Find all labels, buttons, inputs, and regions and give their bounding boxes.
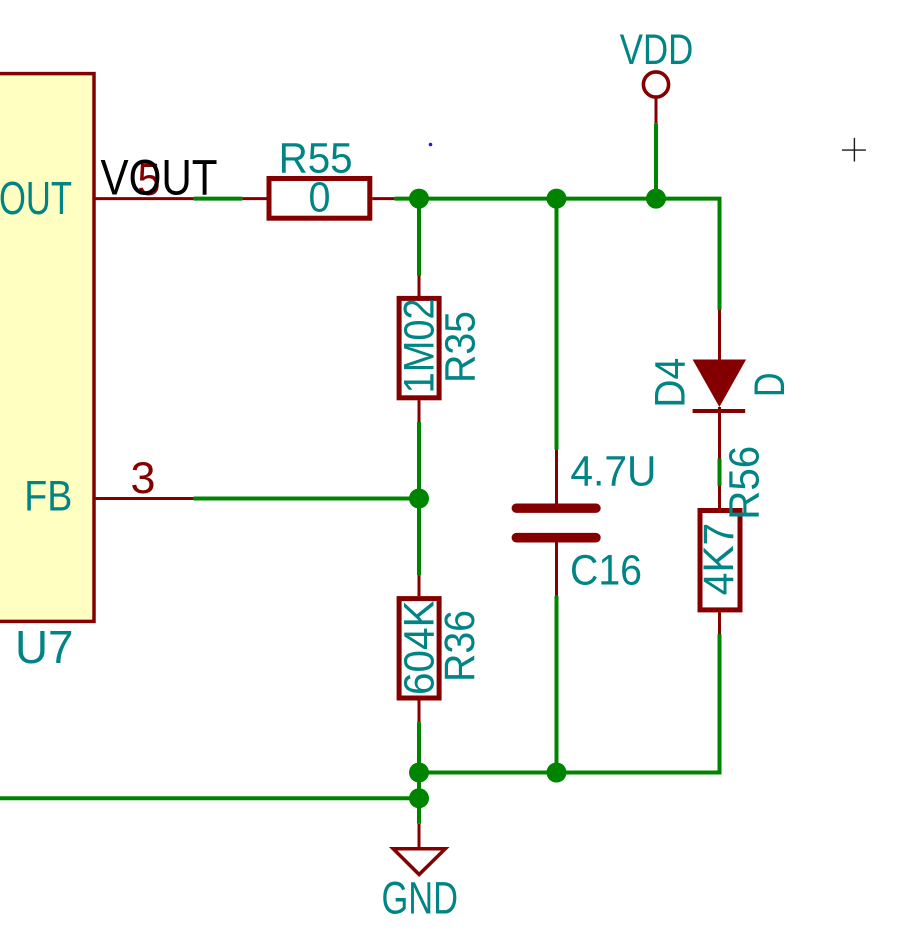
node junction J3 [646, 189, 666, 209]
diode D4 through line [718, 407, 721, 459]
resistor R56 bottom pin [718, 612, 721, 634]
svg-text:R35: R35 [436, 311, 484, 383]
svg-text:3: 3 [131, 454, 156, 503]
svg-text:4K7: 4K7 [695, 523, 743, 596]
svg-text:D: D [746, 373, 794, 398]
diode D4 cathode bar [693, 409, 746, 413]
svg-text:0: 0 [309, 174, 331, 222]
svg-text:4.7U: 4.7U [570, 447, 656, 495]
long wire at bottom [0, 796, 419, 800]
IC U7 body [0, 74, 94, 622]
svg-text:D4: D4 [647, 358, 695, 408]
svg-text:R36: R36 [436, 610, 484, 682]
wire R55 to top-right corner and down to diode [394, 199, 719, 310]
pin 3 line (FB) [94, 497, 194, 500]
ground symbol [393, 849, 445, 875]
stray blue dot [429, 143, 433, 147]
wire OUT pin to R55 [194, 197, 243, 201]
pin 5 line (OUT) [94, 197, 194, 200]
svg-text:OUT: OUT [0, 172, 72, 224]
resistor R55 left pin [242, 197, 266, 200]
resistor R36 top pin [418, 575, 421, 596]
node junction J7 [409, 788, 429, 808]
resistor R35 [399, 298, 439, 397]
diode D4 body [693, 360, 747, 408]
wire R56 to bottom rail [419, 634, 720, 773]
resistor R55 right pin [372, 197, 394, 200]
resistor R35 top pin [418, 276, 421, 297]
resistor R55 [269, 179, 370, 219]
wire R35 to FB junction [417, 422, 421, 499]
wire VDD to J3 [654, 123, 658, 198]
wire C16 to bottom rail [555, 596, 559, 773]
svg-text:C16: C16 [570, 547, 642, 595]
svg-text:GND: GND [382, 873, 459, 924]
cursor crosshair [842, 138, 866, 162]
power symbol VDD circle [643, 72, 668, 97]
GND pin stub [418, 824, 421, 847]
node junction J6 [547, 763, 567, 783]
resistor R36 bottom pin [418, 700, 421, 722]
diode D4 anode pin [718, 310, 721, 360]
node junction J1 [409, 189, 429, 209]
wire diode to R56 [718, 459, 722, 487]
wire J2 down to C16 [555, 199, 559, 450]
VDD pin stub [655, 97, 658, 123]
resistor R35 bottom pin [418, 400, 421, 422]
capacitor C16 bottom pin [555, 543, 558, 596]
wire J4 down to R36 [417, 499, 421, 576]
capacitor C16 bottom plate [512, 533, 601, 543]
svg-text:FB: FB [24, 473, 72, 520]
resistor R56 [700, 511, 740, 610]
node junction J2 [547, 189, 567, 209]
capacitor C16 top pin [555, 450, 558, 504]
svg-text:U7: U7 [15, 621, 74, 673]
wire R36 to GND junctions [417, 722, 421, 824]
wire FB to junction [194, 497, 419, 501]
node junction J5 [409, 763, 429, 783]
wire J1 down to R35 [417, 199, 421, 276]
resistor R56 top pin [718, 486, 721, 508]
node junction J4 [409, 489, 429, 509]
svg-text:VDD: VDD [620, 26, 694, 74]
resistor R36 [399, 599, 439, 698]
svg-text:R56: R56 [720, 446, 768, 520]
capacitor C16 top plate [512, 504, 601, 513]
